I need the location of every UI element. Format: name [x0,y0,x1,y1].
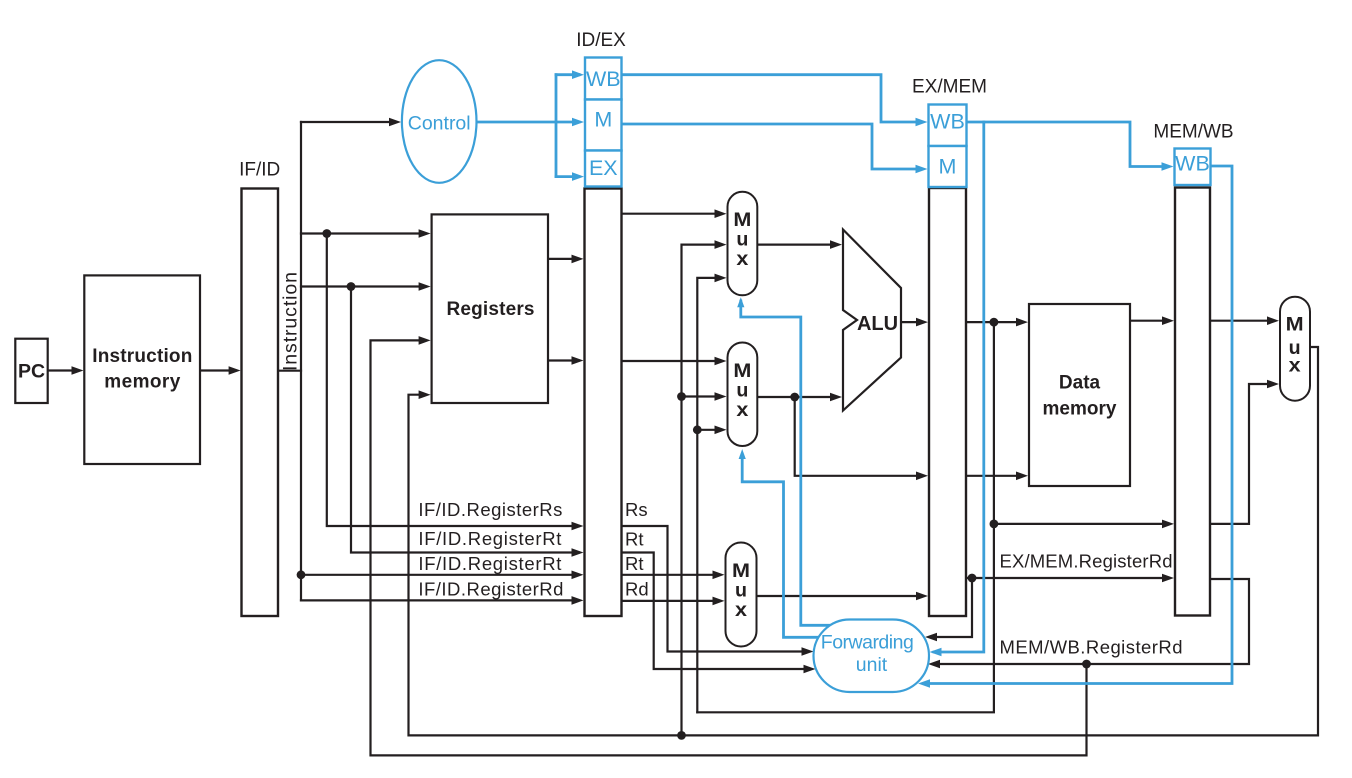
svg-text:x: x [1289,355,1301,377]
wire MEM/WB ALU result to final mux input 2 [1210,384,1273,524]
wire ID/EX WB to EX/MEM WB [622,75,923,122]
wire control branch to ID/EX EX [556,175,579,178]
EX/MEM WB control box [929,105,967,147]
svg-text:MEM/WB: MEM/WB [1153,122,1233,143]
junction dot on read register 2 line [347,282,356,291]
PC register box [15,339,47,403]
svg-text:EX/MEM: EX/MEM [912,77,987,98]
wire Instruction memory to IF/ID [200,369,235,371]
svg-text:Registers: Registers [447,299,535,320]
wire IF/ID.RegisterRt tap [351,287,579,553]
wire EX/MEM.RegisterRd down into forwarding unit [931,578,972,637]
wire EX/MEM WB branch down to forwarding unit [934,122,984,652]
svg-text:IF/ID.RegisterRs: IF/ID.RegisterRs [418,499,562,520]
ID/EX EX control box [585,151,622,187]
svg-text:EX/MEM.RegisterRd: EX/MEM.RegisterRd [1000,551,1173,572]
junction dot on write-back value line [677,731,686,740]
wire Registers read data 2 to ID/EX [548,359,579,361]
svg-text:MEM/WB.RegisterRd: MEM/WB.RegisterRd [1000,637,1183,658]
wire control branch vertical [555,75,558,177]
wire ForwardB from forwarding unit to Mux B select [742,455,823,637]
blue control wires [477,75,1233,684]
ALU [843,230,901,411]
IF/ID pipeline register [242,189,279,617]
junction dot EX/MEM.RegisterRd to forwarding unit [968,574,977,583]
svg-text:x: x [736,248,748,270]
svg-text:Forwarding: Forwarding [821,632,914,654]
wire bus to Registers read register 1 [301,232,425,234]
EX/MEM M control box [929,146,967,187]
svg-text:WB: WB [1175,152,1210,176]
svg-text:ID/EX: ID/EX [576,30,626,51]
wire ALU result bypass to MEM/WB [994,523,1167,525]
junction dot ALU result branch [990,318,999,327]
svg-text:EX: EX [589,156,618,180]
wire Mux A output to ALU [758,244,834,246]
wire ID/EX Rd to destination mux input 2 [622,600,719,602]
wire EX/MEM ALU result to Data memory address [966,321,1022,323]
EX/MEM pipeline register [929,188,966,616]
junction dot MEM/WB.RegisterRd to write register [1082,660,1091,669]
wire Mux B output to ALU [758,396,834,398]
ID/EX WB control box [585,58,622,100]
svg-text:x: x [735,599,747,621]
junction dot on instruction bus for Rt tap [297,570,306,579]
wire instruction bus vertical [300,122,302,600]
junction dot Mux B input 2 [677,392,686,401]
svg-text:Rt: Rt [625,553,644,574]
svg-text:Rd: Rd [625,579,649,600]
ID/EX pipeline register [585,189,622,617]
wire IF/ID instruction output to bus [278,370,301,372]
svg-text:memory: memory [1043,399,1117,420]
svg-text:Rs: Rs [625,499,648,520]
svg-text:IF/ID.RegisterRt: IF/ID.RegisterRt [418,553,561,574]
wire MEM/WB read data to final mux input 1 [1210,320,1273,322]
wire ID/EX Rs to forwarding unit [622,526,809,652]
wire IF/ID.RegisterRd tap [301,599,579,601]
wire IF/ID.RegisterRs tap [327,234,579,527]
wire MEM/WB.RegisterRd to forwarding unit [934,579,1249,664]
wire EX/MEM.RegisterRd to MEM/WB [966,577,1167,579]
svg-text:WB: WB [586,67,621,91]
wire ID/EX Rt to destination mux input 1 [622,574,719,576]
svg-text:WB: WB [930,110,965,134]
svg-text:Instruction: Instruction [280,272,302,371]
wire store data branch to EX/MEM [795,397,922,476]
wire forwarded write-back value to Mux A input 2 and Mux B input 2 [682,245,721,736]
junction dot on Mux B output [790,393,799,402]
wire IF/ID.RegisterRt second tap [301,574,579,576]
MEM/WB pipeline register [1175,188,1210,616]
svg-text:x: x [736,399,748,421]
Data memory box [1029,304,1130,486]
wire bus to Registers read register 2 [301,285,425,287]
junction dot bypass branch [990,520,999,529]
ID/EX M control box [585,100,622,151]
svg-text:Instruction: Instruction [92,346,192,367]
junction dot on read register 1 line [322,229,331,238]
wire ALU result to EX/MEM [901,321,922,323]
wire ID/EX read data 1 to Mux A input 1 [622,213,721,215]
wire write register number from MEM/WB.RegisterRd to Registers [371,340,1087,755]
Control oval [402,60,477,183]
svg-text:M: M [939,155,957,179]
svg-text:M: M [594,108,612,132]
svg-text:IF/ID.RegisterRd: IF/ID.RegisterRd [418,578,563,599]
wire write data from final mux to Registers [409,347,1319,735]
wire destination register mux output to EX/MEM [757,595,923,597]
svg-text:Data: Data [1059,373,1101,394]
svg-text:PC: PC [18,360,45,382]
wire ID/EX M to EX/MEM M [622,124,923,169]
destination register mux [726,543,757,647]
MEM/WB WB control box [1175,149,1211,186]
wire store data EX/MEM to Data memory write data [966,475,1021,477]
Mux A (upper ALU mux) [728,192,758,295]
wire ID/EX Rt to forwarding unit [622,553,811,670]
svg-text:M: M [1286,314,1304,336]
svg-text:IF/ID.RegisterRt: IF/ID.RegisterRt [418,528,561,549]
svg-text:unit: unit [856,654,888,676]
wire Control output to ID/EX M [477,121,580,124]
wire ForwardA from forwarding unit to Mux A select [741,301,834,625]
wire Registers read data 1 to ID/EX [548,258,579,260]
Forwarding unit oval [814,620,930,693]
wire bus to Control [301,121,395,123]
wire bottom forwarding run from EX/MEM ALU result [697,322,994,712]
junction dot Mux B input 3 [693,425,702,434]
wire control branch to ID/EX WB [556,73,579,76]
wire forwarded EX/MEM ALU result to Mux A input 3 and Mux B input 3 [697,278,720,712]
wire PC to Instruction memory [48,369,78,371]
svg-text:IF/ID: IF/ID [239,160,280,181]
svg-text:Control: Control [408,113,471,135]
wire Data memory read data to MEM/WB [1130,320,1167,322]
Mux B (lower ALU mux) [728,343,758,447]
svg-text:Rt: Rt [625,529,644,550]
Registers box [432,214,548,403]
wire MEM/WB WB to forwarding unit [924,166,1232,684]
wire EX/MEM WB to MEM/WB WB [967,122,1168,167]
final write-back mux [1280,297,1310,401]
blue arrowheads [572,70,1174,687]
svg-text:ALU: ALU [857,313,898,335]
svg-text:memory: memory [104,372,180,393]
wire ID/EX read data 2 to Mux B input 1 [622,360,721,362]
Instruction memory box [84,275,200,464]
